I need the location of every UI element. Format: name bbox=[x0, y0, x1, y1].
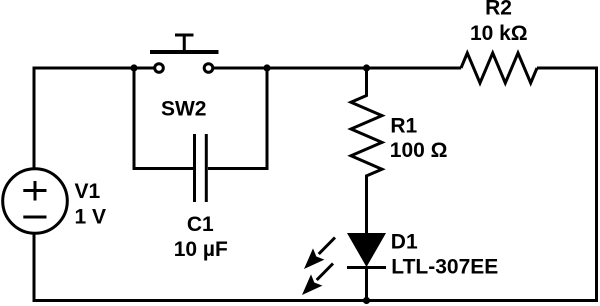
wire bottom horizontal bbox=[34, 299, 598, 302]
voltage source V1 bbox=[3, 169, 68, 234]
wire left vertical upper bbox=[33, 67, 36, 169]
wire junction to R2 bbox=[367, 67, 462, 70]
LED D1 bbox=[347, 233, 386, 300]
LED light arrow 2 bbox=[302, 264, 333, 296]
svg-text:10 kΩ: 10 kΩ bbox=[470, 22, 528, 45]
svg-text:1 V: 1 V bbox=[75, 206, 107, 229]
svg-text:100 Ω: 100 Ω bbox=[390, 139, 448, 162]
svg-text:SW2: SW2 bbox=[161, 98, 207, 121]
capacitor C1 bbox=[195, 134, 207, 202]
resistor R2 bbox=[461, 53, 537, 83]
svg-text:V1: V1 bbox=[75, 180, 101, 203]
wire capacitor right lead bbox=[208, 68, 269, 169]
LED light arrow 1 bbox=[304, 238, 335, 270]
switch SW2 bbox=[150, 35, 219, 72]
svg-text:R2: R2 bbox=[485, 0, 512, 20]
svg-text:R1: R1 bbox=[390, 114, 417, 137]
node junction LED bottom bbox=[363, 297, 370, 304]
node junction R1 top bbox=[363, 64, 370, 71]
wire R2 to top-right corner bbox=[537, 67, 597, 70]
svg-text:C1: C1 bbox=[187, 213, 214, 236]
node junction right of switch bbox=[263, 64, 270, 71]
wire left vertical lower bbox=[33, 234, 36, 302]
svg-text:D1: D1 bbox=[391, 230, 418, 253]
wire switch to right junction bbox=[214, 67, 367, 70]
resistor R1 bbox=[351, 68, 382, 233]
svg-text:LTL-307EE: LTL-307EE bbox=[391, 256, 498, 279]
wire capacitor left lead bbox=[133, 68, 194, 169]
svg-text:10 µF: 10 µF bbox=[174, 238, 228, 261]
node junction left of switch bbox=[130, 64, 137, 71]
wire top-left horizontal bbox=[34, 67, 154, 70]
wire right vertical bbox=[595, 67, 598, 301]
